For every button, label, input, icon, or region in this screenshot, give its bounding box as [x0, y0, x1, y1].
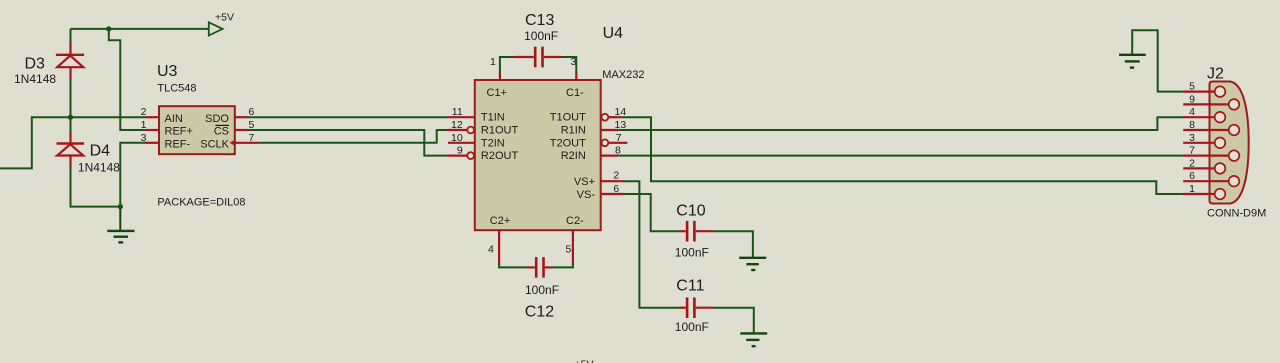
- svg-text:T1IN: T1IN: [481, 112, 505, 124]
- svg-text:12: 12: [451, 119, 463, 131]
- hole pin6: [1229, 176, 1240, 187]
- pin 8 stub: [1183, 129, 1228, 131]
- capacitor C11: [675, 278, 714, 334]
- junction dot on +5V rail: [106, 26, 111, 31]
- svg-text:2: 2: [1189, 157, 1195, 169]
- svg-text:7: 7: [249, 132, 255, 144]
- chip U4 MAX232: [448, 25, 645, 265]
- hole pin8: [1229, 125, 1240, 136]
- hole pin2: [1215, 163, 1226, 174]
- svg-text:T1OUT: T1OUT: [550, 112, 586, 124]
- pin 2 stub: [146, 116, 159, 118]
- wire pin1 riser: [499, 56, 501, 73]
- svg-text:1: 1: [1189, 183, 1195, 195]
- capacitor C10: [675, 203, 714, 260]
- pin 3 stub: [1183, 142, 1215, 144]
- svg-text:REF-: REF-: [165, 138, 191, 150]
- ground at C10: [739, 258, 766, 270]
- svg-text:C13: C13: [525, 12, 554, 29]
- junction dot at D3/D4 tap: [68, 115, 73, 120]
- connector J2 CONN-D9M: [1183, 66, 1266, 220]
- wire VS- to C10: [623, 194, 680, 231]
- svg-text:C12: C12: [525, 304, 554, 321]
- pin 7 stub: [1183, 155, 1228, 157]
- svg-text:TLC548: TLC548: [157, 83, 196, 95]
- svg-text:VS-: VS-: [577, 189, 596, 201]
- wire C11 to ground: [713, 308, 753, 333]
- pin 6 stub VS-: [601, 193, 623, 195]
- pin 1 stub (top): [499, 72, 501, 81]
- pin 2 stub VS+: [601, 180, 623, 182]
- hole pin1: [1215, 189, 1226, 200]
- pin 12 stub R1OUT with bubble: [448, 129, 467, 131]
- pin 9 stub: [1183, 103, 1228, 105]
- svg-text:100nF: 100nF: [675, 320, 709, 334]
- svg-text:+5V: +5V: [575, 359, 594, 363]
- svg-text:CS: CS: [214, 126, 229, 138]
- wire REF- net to ground tap: [120, 143, 146, 208]
- wire J2 pin5 to ground: [1132, 30, 1184, 91]
- pin 6 stub: [235, 116, 248, 118]
- svg-text:R2IN: R2IN: [561, 150, 586, 162]
- pin 5 stub: [1183, 90, 1215, 92]
- svg-text:6: 6: [1189, 170, 1195, 182]
- pin 5 stub: [235, 129, 248, 131]
- svg-text:4: 4: [488, 244, 494, 256]
- ground at C11: [740, 333, 767, 346]
- pin 1 stub: [146, 129, 159, 131]
- D9 body: [1210, 82, 1249, 204]
- chip U3 TLC548: [141, 63, 260, 208]
- svg-text:SCLK: SCLK: [200, 138, 229, 150]
- power terminal +5V: [209, 11, 234, 35]
- svg-text:1N4148: 1N4148: [14, 72, 56, 86]
- wire AIN horizontal to U3 pin2: [31, 116, 147, 118]
- hole pin7: [1229, 150, 1240, 161]
- pin 2 stub: [1183, 167, 1215, 169]
- svg-text:4: 4: [1189, 106, 1195, 118]
- svg-text:MAX232: MAX232: [602, 69, 644, 81]
- pin 9 stub R2OUT with bubble: [448, 155, 467, 157]
- svg-text:C2-: C2-: [566, 215, 584, 227]
- hole pin5: [1215, 86, 1226, 97]
- wire pin3 riser: [575, 56, 577, 73]
- hole pin3: [1215, 138, 1226, 149]
- pin 7 bubble + stub T2OUT (unconnected): [602, 139, 609, 146]
- pin 13 stub R1IN: [601, 129, 619, 131]
- svg-text:9: 9: [1189, 93, 1195, 105]
- capacitor C12: [499, 257, 573, 321]
- pin 4 stub (bottom): [498, 230, 500, 264]
- junction dot ground tap: [118, 204, 123, 209]
- wire REF+ net from +5V rail: [109, 29, 147, 130]
- svg-text:1: 1: [141, 119, 147, 131]
- wire D4 bottom to ground tap: [71, 206, 121, 208]
- wire left-edge horizontal y=168: [0, 167, 32, 169]
- svg-text:C11: C11: [676, 278, 704, 295]
- svg-text:C1+: C1+: [487, 87, 508, 99]
- pin 8 stub R2IN: [601, 155, 619, 157]
- wire SDO to T1IN: [248, 116, 448, 118]
- svg-text:U3: U3: [157, 63, 178, 80]
- svg-text:100nF: 100nF: [525, 283, 559, 297]
- svg-text:C10: C10: [676, 203, 705, 220]
- svg-text:100nF: 100nF: [675, 246, 709, 260]
- svg-text:2: 2: [613, 170, 619, 182]
- ground top right: [1119, 55, 1146, 68]
- wire T1OUT to J2 pin1: [621, 117, 1184, 194]
- node AIN-net: left input wires: [0, 117, 147, 169]
- svg-text:6: 6: [613, 183, 619, 195]
- pin 5 stub (bottom): [572, 230, 574, 264]
- wire C10 to ground: [714, 231, 753, 257]
- svg-text:CONN-D9M: CONN-D9M: [1207, 208, 1266, 220]
- hole pin9: [1229, 99, 1240, 110]
- svg-text:R1OUT: R1OUT: [481, 125, 519, 137]
- wire R1IN to J2 pin4: [618, 117, 1184, 130]
- svg-text:1N4148: 1N4148: [78, 160, 120, 174]
- pin 7 stub with clock arrow: [235, 142, 260, 144]
- pin 10 stub T2IN: [448, 142, 475, 144]
- ground under D4: [107, 207, 134, 243]
- svg-text:D3: D3: [25, 56, 46, 73]
- svg-text:U4: U4: [603, 25, 624, 42]
- wire SCLK to R1OUT: [260, 130, 448, 143]
- capacitor C13: [500, 12, 576, 73]
- svg-text:100nF: 100nF: [524, 29, 558, 43]
- svg-text:+5V: +5V: [215, 11, 234, 23]
- pin 6 stub: [1183, 180, 1228, 182]
- svg-text:PACKAGE=DIL08: PACKAGE=DIL08: [157, 196, 245, 208]
- svg-text:5: 5: [566, 244, 572, 256]
- svg-text:C1-: C1-: [566, 87, 584, 99]
- wire VS+ to C11: [623, 181, 680, 308]
- wire CS to R2OUT: [248, 130, 448, 156]
- svg-text:T2OUT: T2OUT: [550, 137, 586, 149]
- wire +5V top rail: [71, 28, 209, 30]
- svg-text:REF+: REF+: [165, 126, 193, 138]
- pin 1 stub: [1183, 193, 1215, 195]
- svg-text:AIN: AIN: [165, 113, 183, 125]
- svg-text:11: 11: [452, 106, 463, 118]
- svg-text:C2+: C2+: [490, 215, 511, 227]
- svg-text:7: 7: [1189, 145, 1195, 157]
- diode D3: [14, 29, 84, 116]
- svg-text:R2OUT: R2OUT: [481, 150, 519, 162]
- svg-text:3: 3: [141, 132, 147, 144]
- svg-text:J2: J2: [1207, 66, 1224, 83]
- svg-text:D4: D4: [90, 143, 111, 160]
- svg-text:SDO: SDO: [205, 113, 229, 125]
- svg-text:7: 7: [616, 132, 622, 144]
- pin 14 bubble + stub T1OUT: [602, 114, 609, 121]
- pin 3 stub: [146, 142, 159, 144]
- svg-text:1: 1: [490, 56, 496, 68]
- pin 4 stub: [1183, 116, 1215, 118]
- svg-text:2: 2: [141, 106, 147, 118]
- pin 3 stub (top): [575, 72, 577, 81]
- svg-text:9: 9: [457, 145, 463, 157]
- svg-text:5: 5: [1189, 81, 1195, 93]
- diode D4: [57, 118, 121, 208]
- svg-text:T2IN: T2IN: [481, 137, 505, 149]
- hole pin4: [1215, 112, 1226, 123]
- wire vertical x=31.8: [31, 117, 33, 169]
- wire R2IN to J2 pin7: [618, 155, 1184, 157]
- pin 11 stub T1IN: [448, 116, 475, 118]
- svg-text:10: 10: [451, 132, 463, 144]
- svg-text:VS+: VS+: [574, 176, 595, 188]
- svg-text:R1IN: R1IN: [561, 125, 586, 137]
- svg-text:8: 8: [1189, 119, 1195, 131]
- svg-text:3: 3: [1189, 132, 1195, 144]
